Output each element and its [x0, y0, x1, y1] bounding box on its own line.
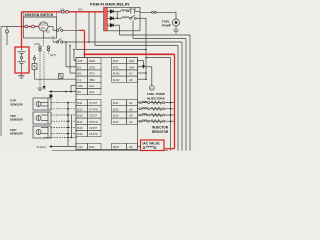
- svg-text:RESISTOR: RESISTOR: [152, 130, 169, 134]
- svg-text:IGP1: IGP1: [89, 59, 96, 63]
- svg-text:B2: B2: [78, 90, 82, 94]
- svg-text:VBU: VBU: [89, 78, 95, 82]
- svg-text:SENSOR: SENSOR: [10, 118, 24, 122]
- svg-text:ELD: ELD: [89, 145, 94, 149]
- svg-text:CYP M: CYP M: [89, 107, 98, 111]
- svg-text:FLR1: FLR1: [113, 72, 120, 76]
- svg-text:FLR2: FLR2: [113, 78, 120, 82]
- svg-text:INJ2: INJ2: [113, 107, 119, 111]
- svg-text:IG2: IG2: [46, 31, 51, 34]
- svg-text:A5: A5: [129, 114, 133, 118]
- svg-text:C10: C10: [78, 145, 84, 149]
- svg-text:(A/T): (A/T): [50, 53, 56, 57]
- svg-text:C1: C1: [78, 78, 82, 82]
- svg-text:INJ1: INJ1: [113, 101, 119, 105]
- svg-text:A9: A9: [129, 145, 133, 149]
- svg-text:CKP M: CKP M: [89, 132, 98, 136]
- svg-text:TDC P: TDC P: [89, 114, 97, 118]
- svg-text:B15: B15: [78, 126, 83, 130]
- svg-text:A23: A23: [129, 59, 134, 63]
- svg-text:A2: A2: [129, 120, 133, 124]
- svg-text:50A: 50A: [78, 7, 83, 11]
- svg-text:A8: A8: [129, 78, 133, 82]
- svg-text:SENSOR: SENSOR: [10, 132, 24, 136]
- svg-text:B11: B11: [78, 101, 83, 105]
- svg-text:CYP P: CYP P: [89, 101, 97, 105]
- svg-text:(A/T): (A/T): [34, 42, 40, 46]
- svg-text:B16: B16: [78, 132, 83, 136]
- svg-text:A1: A1: [129, 101, 133, 105]
- svg-text:INJ4: INJ4: [113, 120, 119, 124]
- svg-text:LG1: LG1: [89, 84, 95, 88]
- svg-text:A25: A25: [78, 59, 83, 63]
- svg-text:STS: STS: [89, 72, 95, 76]
- svg-text:IG1: IG1: [41, 27, 46, 30]
- svg-text:A3: A3: [129, 107, 133, 111]
- svg-text:TDC M: TDC M: [89, 120, 98, 124]
- svg-text:IGNITION SWITCH: IGNITION SWITCH: [25, 13, 54, 17]
- svg-text:15A: 15A: [60, 7, 65, 11]
- svg-text:PGM-FI MAIN RELAY: PGM-FI MAIN RELAY: [90, 1, 130, 6]
- svg-text:PO2: PO2: [113, 65, 119, 69]
- svg-text:B12: B12: [78, 107, 83, 111]
- svg-text:IACV: IACV: [113, 145, 120, 149]
- svg-text:SENSOR: SENSOR: [10, 102, 24, 106]
- svg-text:B1: B1: [78, 65, 82, 69]
- svg-text:INJECTORS: INJECTORS: [147, 97, 165, 101]
- svg-text:PUMP: PUMP: [162, 23, 171, 27]
- svg-text:A24: A24: [129, 65, 134, 69]
- svg-text:To ELD: To ELD: [37, 145, 46, 149]
- svg-text:B14: B14: [78, 120, 83, 124]
- svg-text:IGP2: IGP2: [89, 65, 96, 69]
- svg-text:LG2: LG2: [89, 90, 95, 94]
- svg-text:B13: B13: [78, 114, 83, 118]
- svg-text:C: C: [151, 86, 153, 90]
- svg-text:INJ3: INJ3: [113, 114, 119, 118]
- svg-text:A26: A26: [78, 84, 83, 88]
- svg-text:PO1: PO1: [113, 59, 119, 63]
- svg-text:FUEL PUMP: FUEL PUMP: [147, 92, 165, 96]
- svg-text:IAC VALVE: IAC VALVE: [143, 142, 161, 146]
- svg-text:A7: A7: [129, 72, 133, 76]
- svg-text:B9: B9: [78, 72, 82, 76]
- svg-text:CKP P: CKP P: [89, 126, 97, 130]
